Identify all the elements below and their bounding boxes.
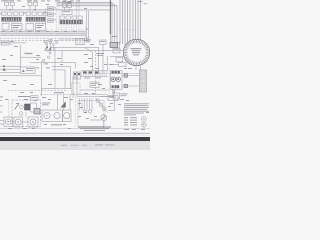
breaker CB2 bbox=[113, 93, 128, 99]
control box A1 bbox=[2, 24, 22, 31]
wire m h2 bbox=[0, 123, 4, 125]
terminal hatch band bbox=[0, 31, 86, 35]
wire top bus 3 bbox=[0, 9, 110, 11]
node ring bbox=[42, 59, 45, 62]
dashed option wire 2 bbox=[40, 94, 75, 96]
legend rows bbox=[124, 117, 137, 125]
wire cb2 down bbox=[108, 99, 115, 111]
corner text specks bbox=[139, 0, 143, 3]
wire m h1 bbox=[0, 120, 4, 122]
diode chain bbox=[96, 98, 108, 113]
wire v41 bbox=[41, 62, 43, 96]
coil unit C top boxes bbox=[62, 1, 72, 10]
wire L1 bbox=[0, 42, 26, 44]
wire h94 bbox=[78, 94, 108, 96]
wire P1 left 1 bbox=[108, 49, 124, 51]
main feed wire cont bbox=[109, 34, 111, 43]
comb connector row bbox=[81, 71, 108, 78]
wire corner x98 bbox=[98, 47, 100, 71]
wire h72 bbox=[0, 71, 21, 73]
pump dash rail bbox=[109, 68, 111, 95]
wire h96 bbox=[78, 96, 115, 98]
gray module bbox=[110, 42, 118, 47]
wire v73 bbox=[72, 76, 74, 98]
relay contact boxes bbox=[73, 72, 81, 79]
label box L1 bbox=[2, 41, 10, 45]
motor M2 bbox=[14, 117, 23, 127]
node dot b bbox=[3, 69, 4, 70]
wire riser x20 bbox=[21, 45, 42, 57]
gray square t2 bbox=[124, 84, 128, 87]
dashed v8 bbox=[8, 99, 10, 117]
wire m link1 bbox=[13, 121, 15, 123]
border rule faint bbox=[0, 134, 150, 136]
wire h75 bbox=[0, 75, 42, 77]
wire v55b bbox=[54, 62, 56, 88]
label near P1 bbox=[96, 52, 104, 55]
feed v79 bbox=[78, 0, 80, 16]
left stub 3 bbox=[0, 100, 3, 102]
pump assembly column bbox=[111, 71, 123, 93]
legend symbols bbox=[141, 117, 146, 128]
wire top bus 1 bbox=[57, 2, 112, 42]
notes paragraph bbox=[124, 103, 149, 115]
harness bundle to round connector bbox=[120, 0, 141, 46]
dashed harness band bbox=[0, 38, 86, 40]
inline connector pins bbox=[85, 11, 88, 42]
control box B1 bbox=[26, 24, 46, 31]
relay to motor stub bbox=[25, 112, 27, 117]
gray square t1 bbox=[124, 74, 128, 77]
border rule thin bbox=[0, 132, 150, 134]
label strip mid bbox=[24, 52, 33, 54]
celled connector VR1 bbox=[76, 39, 92, 45]
enclosure labels bbox=[18, 96, 38, 100]
coil unit B top boxes bbox=[27, 0, 38, 9]
relay row B bbox=[26, 12, 48, 15]
wire v70b bbox=[69, 95, 71, 110]
round connector P1 bbox=[123, 39, 149, 65]
wire h50 bbox=[44, 50, 96, 52]
gauge label bbox=[51, 123, 62, 126]
footer caption marks bbox=[61, 144, 114, 146]
wire v57 bbox=[57, 95, 59, 110]
wire P1 left 2 bbox=[110, 56, 125, 58]
key switch S1 bbox=[44, 40, 58, 59]
wire v95 bbox=[95, 51, 97, 95]
dotted cross tie bbox=[118, 29, 135, 31]
module box C1 bbox=[62, 10, 72, 15]
strip J3 stubs bbox=[62, 24, 80, 31]
wire v77 bbox=[76, 76, 78, 98]
main feed wire bbox=[109, 0, 111, 34]
wire L2 bbox=[0, 44, 13, 46]
wire m link2 bbox=[23, 121, 29, 123]
connector blocks left of P1 bbox=[112, 42, 120, 53]
wire top bus 2b bbox=[57, 6, 117, 43]
connector strip J3 bbox=[60, 20, 83, 24]
feed v45 bbox=[45, 8, 47, 25]
wire h50r bbox=[96, 49, 111, 51]
wire P1 bottom drop bbox=[135, 66, 137, 70]
wire pump to tb1 b bbox=[122, 85, 139, 87]
connector strip J1 bbox=[2, 17, 22, 21]
ammeter A1 bbox=[101, 115, 107, 121]
wire h90r bbox=[80, 89, 109, 91]
motor M1 bbox=[4, 117, 13, 127]
node dot a bbox=[3, 66, 4, 67]
dashed v75 bbox=[75, 95, 77, 128]
page shadow strip bbox=[0, 141, 150, 150]
diagonal feed bbox=[85, 48, 93, 53]
wire h47 bbox=[51, 46, 99, 48]
node ring sm1 bbox=[84, 110, 87, 113]
wire v55 bbox=[54, 47, 56, 62]
node ring small bbox=[88, 110, 91, 113]
wire y70 bbox=[52, 70, 65, 89]
connector strip J2 bbox=[26, 17, 46, 21]
dashed enclosure bbox=[12, 100, 41, 127]
fuse stack F1-F3 bbox=[48, 7, 54, 22]
band feeder stubs bbox=[4, 29, 84, 32]
wire pump to tb1 a bbox=[122, 75, 139, 77]
wire h69 bbox=[0, 68, 21, 70]
coil unit A top boxes bbox=[3, 0, 14, 9]
wire h120 bbox=[90, 119, 101, 121]
option label bbox=[54, 91, 64, 94]
wire y66 bbox=[52, 66, 71, 88]
strip J2 stubs bbox=[28, 21, 46, 23]
wire v63 bbox=[63, 95, 65, 110]
wire v103 bbox=[102, 44, 104, 73]
label box mid bbox=[90, 82, 99, 88]
strip J1 stubs bbox=[3, 21, 21, 23]
alarm label bbox=[42, 102, 50, 105]
wire base h128 bbox=[0, 127, 150, 129]
wire h66 bbox=[0, 65, 21, 67]
caption text block bbox=[78, 127, 111, 131]
dashed option wire 1 bbox=[8, 90, 67, 92]
horn symbol bbox=[61, 101, 66, 107]
flasher unit E1 bbox=[21, 67, 36, 74]
feed v76 bbox=[76, 0, 78, 16]
relay row C bbox=[60, 16, 82, 19]
starter relay group bbox=[15, 103, 41, 115]
equipment enclosure bbox=[78, 101, 104, 127]
terminal table TB1 bbox=[139, 70, 146, 92]
plug blocks lower left of P1 bbox=[116, 57, 126, 66]
wire v62c bbox=[61, 51, 63, 63]
wire bundle down bbox=[80, 98, 93, 111]
left stub 5 bbox=[0, 111, 3, 113]
sensor box bbox=[100, 40, 107, 44]
scattered tiny labels bbox=[0, 1, 149, 130]
left stub 4 bbox=[0, 105, 3, 107]
harness bus D bbox=[57, 0, 60, 30]
gauge third bbox=[63, 110, 72, 122]
wire P1 bottom left bbox=[108, 64, 119, 66]
wire v107 bbox=[107, 56, 109, 71]
wire P1 to table bbox=[140, 64, 142, 70]
wire meter down bbox=[103, 121, 105, 129]
wire y62 run bbox=[30, 62, 76, 68]
wire v92 bbox=[92, 53, 94, 71]
wire h88 bbox=[42, 88, 72, 90]
wire top bus 2 bbox=[57, 4, 115, 42]
gauge pair box bbox=[42, 110, 63, 122]
bottom dark bar bbox=[0, 137, 150, 141]
motor M3 bbox=[28, 117, 38, 127]
wire pump down bbox=[101, 90, 115, 97]
wire h73 bbox=[95, 73, 139, 75]
dashed sub-box bbox=[72, 83, 81, 94]
wire riser ext bbox=[20, 57, 22, 67]
breaker box CB1 bbox=[108, 96, 118, 101]
relay row A bbox=[2, 12, 24, 15]
